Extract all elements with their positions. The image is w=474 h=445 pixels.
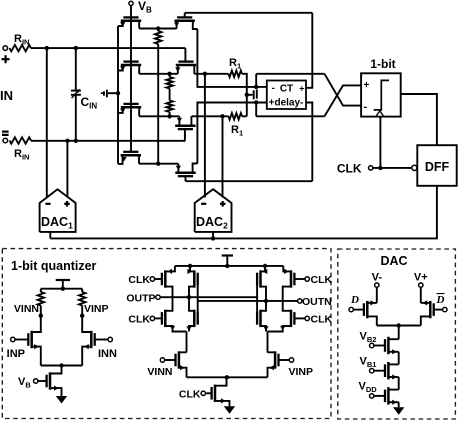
svg-text:DAC1: DAC1 [41,215,73,231]
wire M1 drain to delay top input [197,29,266,87]
node dot VINN [39,314,43,318]
wire DAC2 plus input [222,116,224,197]
wire R1 top to series node [242,74,247,117]
svg-text:CLK: CLK [337,162,362,176]
svg-text:RIN: RIN [14,33,29,47]
svg-text:CLK: CLK [311,314,333,326]
transistor preamp INN [90,331,93,348]
wire DFF output feedback [50,186,437,239]
terminal V- [375,283,379,287]
wire R1 bottom right end [242,115,247,117]
input terminal + (top) [3,46,8,51]
wire node B to delay bottom input [197,103,266,117]
wire delay out- to feedback [306,103,312,182]
transistor DAC left [366,301,369,318]
wire cross diagonal 1 [325,74,362,106]
terminal OUTN [298,299,302,303]
svg-text:DAC: DAC [380,254,407,268]
svg-text:VINN: VINN [14,303,39,315]
wire OUTN line [198,300,298,302]
transistor DAC VB2 [387,337,390,354]
terminal VINP latch [289,358,293,362]
transistor row3-mid M3 [175,124,195,127]
node dot DAC common [397,323,401,327]
terminal INN [108,337,112,341]
wire latch tail [187,376,268,378]
node dot OUTP-P2 [187,295,191,299]
node dot top-input/DAC1- tap [45,46,49,50]
transistor DAC right [429,301,432,318]
node dot R1 midpoint [245,93,249,97]
terminal V+ [419,283,423,287]
wire row3 to M3 source [139,115,179,117]
svg-text:-: - [364,101,368,113]
wire tail stem [61,366,63,373]
transistor latch N1 [164,310,167,327]
node dot preamp tail [59,363,63,367]
wire DAC common [377,325,421,327]
svg-text:INN: INN [98,348,117,360]
node dot row1/resistor tap [156,26,160,30]
wire delay out+ to feedback [306,13,312,88]
transistor DAC VB1 [387,362,390,379]
svg-text:1-bit: 1-bit [370,57,395,71]
wire quantizer output [401,94,437,145]
svg-text:VINP: VINP [289,366,314,378]
terminal VINN latch [160,358,164,362]
svg-text:IN: IN [0,88,13,103]
terminal OUTP [156,295,160,299]
svg-text:CLK: CLK [311,274,333,286]
transistor row4-left [121,154,141,157]
capacitor common-mode left [108,92,118,94]
wire OUTP line [160,296,257,298]
wire DAC1 minus input [46,48,48,197]
transistor latch N3 [259,310,262,327]
resistor RIN (top) [10,45,32,51]
svg-text:CLK: CLK [128,274,150,286]
hysteresis symbol [374,80,389,110]
transistor latch P4 [290,270,293,287]
dashed box DAC [338,249,456,419]
svg-text:RIN: RIN [14,148,29,162]
svg-text:VDD: VDD [359,381,378,395]
terminal CLK N4 [305,316,309,320]
node dot CLK junction [378,166,382,170]
svg-text:CIN: CIN [81,95,98,111]
wire M4 gate to bottom feedback [185,176,187,181]
wire latch right drain [267,332,269,353]
wire M3 gate from input [184,129,186,141]
wire preamp tail [41,365,82,367]
clock triangle quantizer [376,111,384,117]
wire DAC1 output [49,232,51,239]
transistor input VINN [178,351,181,368]
svg-text:OUTN: OUTN [302,296,332,308]
svg-text:-: - [272,83,275,94]
resistor chain mid [166,77,172,89]
wire node B down to M4 drain [196,116,198,163]
wire quantizer clock [379,117,381,168]
node dot DAC2 output junction [211,236,215,240]
wire DAC stem3 [398,377,400,390]
svg-text:R1: R1 [231,124,243,138]
power VDD latch [222,254,233,256]
svg-text:VINN: VINN [147,366,172,378]
terminal CLK tail [201,391,205,395]
svg-text:VINP: VINP [84,303,109,315]
node dot latch P3 rail [263,264,267,268]
resistor bias chain 1 [157,27,159,29]
node dot OUTN-P3 [264,299,268,303]
wire row2 to M2 source [139,73,178,75]
transistor latch P3 [259,270,262,287]
svg-text:R1: R1 [229,57,241,71]
wire latch rail [175,265,283,267]
node dot resistor-chain top [167,72,171,76]
wire DAC1 plus input [66,141,68,198]
wire DAC stem1 [398,326,400,340]
transistor latch N4 [290,310,293,327]
wire DAC stem2 [398,352,400,365]
resistor R1 bottom [229,113,243,119]
terminal VB [129,1,133,5]
terminal VB2 [370,343,374,347]
node dot latch vdd [225,264,229,268]
wire top feedback [185,12,313,14]
node dot preamp vdd [61,287,65,291]
node dot bottom-input/CIN [74,139,78,143]
wire latch left drain [186,332,188,353]
node dot A to DAC2- [203,72,207,76]
wire delay bypass top [256,73,324,75]
transistor row2-mid M2 [176,64,196,67]
transistor latch tail CLK [214,385,217,402]
svg-text:V+: V+ [414,272,428,284]
inverter bubble DFF clock [412,165,417,170]
node dot cm-cap on rail [116,91,120,95]
resistor R1 top [229,71,243,77]
wire DAC stem4 [398,402,400,407]
dashed box 1-bit quantizer [2,249,331,419]
power VDD preamp [56,279,70,281]
svg-text:CT: CT [280,84,293,95]
node dot B to DAC2+ [220,114,224,118]
wire delay bypass bottom [256,115,324,117]
wire CLK to DFF [373,167,412,169]
svg-text:V-: V- [372,272,383,284]
terminal INP [11,337,15,341]
wire preamp rail [41,288,82,290]
transistor preamp tail [49,372,52,389]
wire latch P3 gate [256,273,258,324]
flip-flop DFF box [417,145,456,186]
transistor row1-left [121,20,141,23]
svg-text:VB: VB [138,0,152,15]
wire delay input stub top [255,74,257,87]
dac DAC1 [40,189,76,232]
wire left source rail [117,26,119,164]
terminal VB preamp [34,379,38,383]
terminal CLK [369,166,373,170]
svg-text:+delay-: +delay- [269,98,304,109]
svg-text:DFF: DFF [425,160,450,174]
terminal D [349,307,353,311]
wire delay input stub bottom [255,103,257,117]
wire top input [31,47,185,49]
svg-text:DAC2: DAC2 [196,215,228,231]
node dot latch tail [225,375,229,379]
wire latch P2 gate [197,273,199,324]
node dot latch P2 rail [188,264,192,268]
terminal Dbar [443,307,447,311]
node dot top-input/CIN tap [74,46,78,50]
svg-text:OUTP: OUTP [126,293,155,305]
wire row1 interconnect [139,28,176,30]
resistor RIN (bottom) [10,137,32,143]
terminal CLK N1 [150,316,154,320]
wire M1 gate from feedback [184,13,186,18]
comparator 1-bit quantizer box [361,73,401,116]
transistor preamp INP [30,331,33,348]
capacitor at R1 midpoint [247,94,253,96]
input terminal - (bottom) [3,138,8,143]
wire VB rail [130,6,132,153]
terminal VDD dac [370,394,374,398]
ground latch [224,406,235,414]
transistor row4-mid M4 [175,172,195,175]
wire bottom feedback [186,180,313,182]
svg-text:CLK: CLK [128,314,150,326]
transistor latch N2 [193,310,196,327]
wire node A [194,73,228,75]
transistor latch P1 [164,270,167,287]
svg-text:D: D [436,294,445,306]
op-amp CT delay box [267,81,306,110]
wire V- drop [376,287,378,303]
transistor row2-left [121,64,141,67]
svg-text:+: + [364,80,370,91]
wire row4 to M4 source [139,163,178,165]
wire DAC2 output [212,232,214,239]
svg-text:D: D [350,294,359,306]
svg-text:INP: INP [7,348,25,360]
wire M2 gate from input [184,48,186,62]
node dot VINP [80,314,84,318]
wire node B [191,115,228,117]
svg-text:CLK: CLK [179,389,201,401]
svg-text:1-bit quantizer: 1-bit quantizer [11,259,97,273]
transistor DAC VDD [387,387,390,404]
ground preamp [56,396,67,404]
wire DAC2 minus input [204,74,206,198]
terminal VB1 [370,369,374,373]
node dot bottom-input/DAC1+ tap [65,139,69,143]
svg-text:+: + [299,84,304,94]
dac DAC2 [195,189,232,232]
wire bottom input [31,140,185,142]
transistor row1-mid M1 [175,20,195,23]
node dot resistor-chain bottom [167,114,171,118]
wire V+ drop [420,287,422,303]
resistor preamp left [40,289,42,292]
node dot resistor rail bottom [156,162,160,166]
capacitor CIN [75,48,77,91]
transistor input VINP [274,351,277,368]
wire cross diagonal 2 [325,85,362,116]
resistor preamp right [81,289,83,292]
transistor row3-left [121,106,141,109]
svg-text:VB1: VB1 [360,356,377,370]
svg-text:VB: VB [18,376,31,390]
ground DAC [393,407,404,415]
svg-text:VB2: VB2 [360,331,377,345]
transistor latch P2 [193,270,196,287]
terminal CLK P4 [305,277,309,281]
terminal CLK P1 [150,277,154,281]
